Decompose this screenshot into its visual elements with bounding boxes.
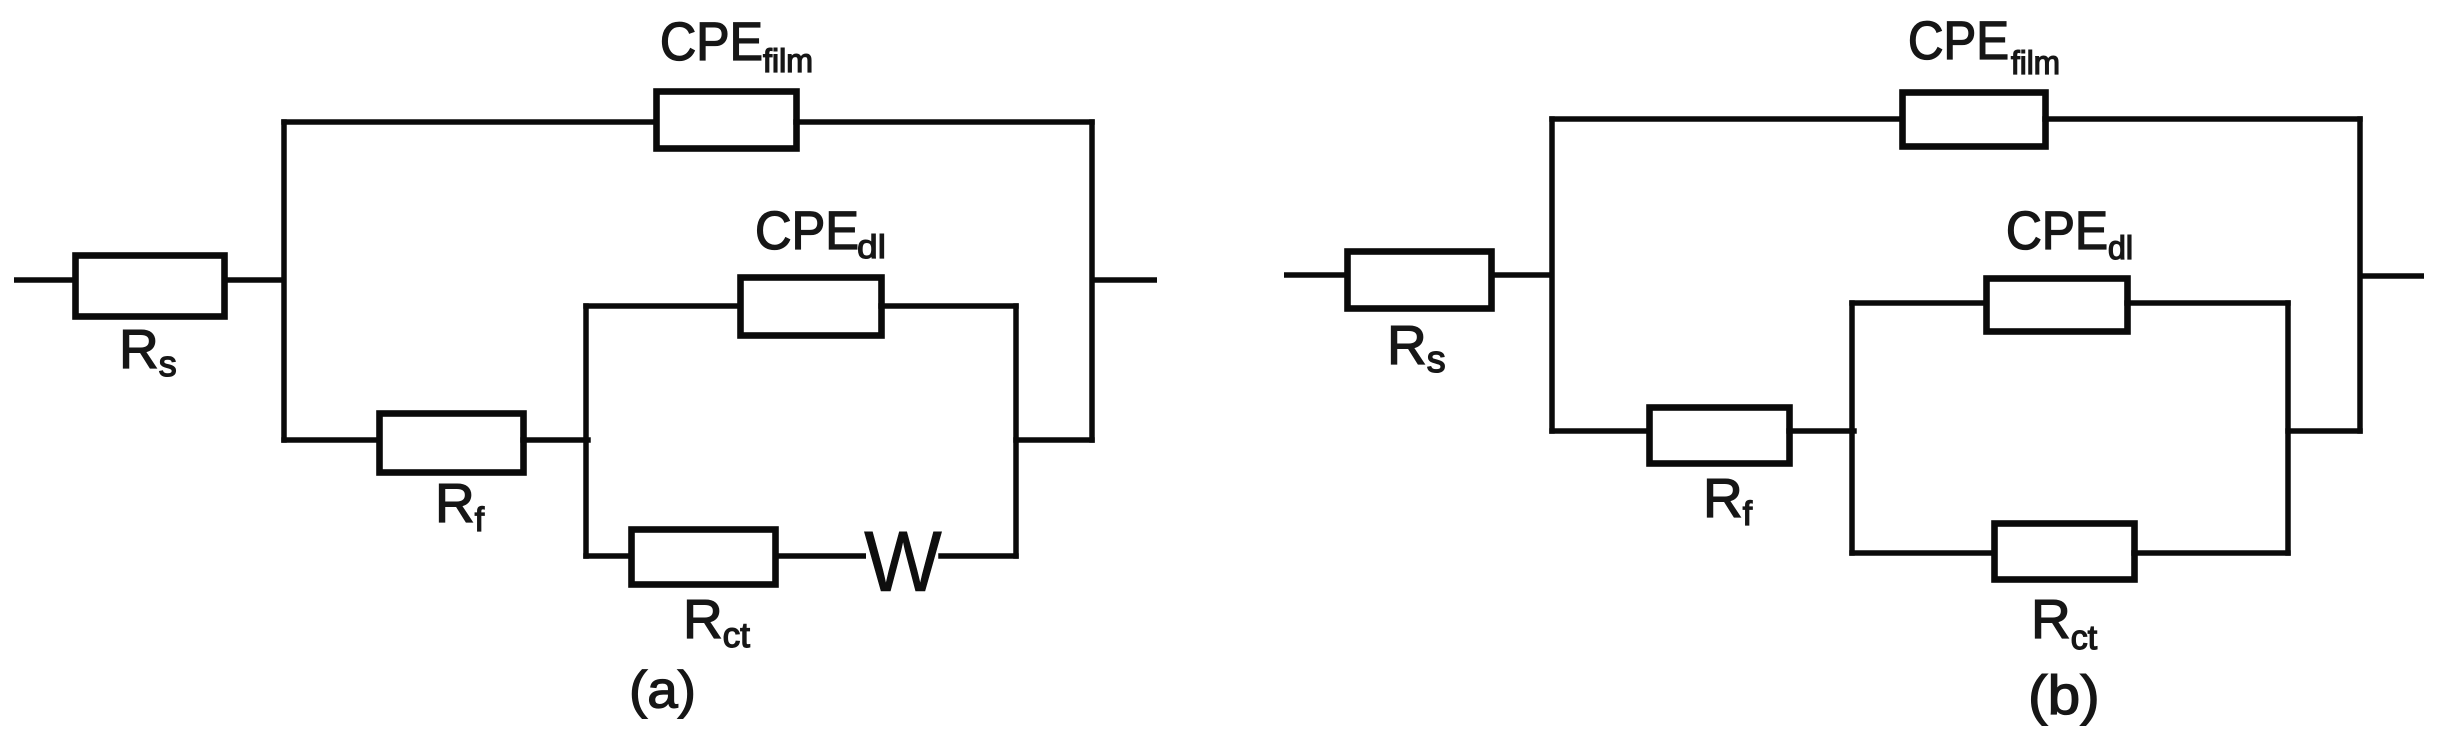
wire: outer right vertical (b)	[2357, 119, 2363, 431]
wire: top branch left segment (b)	[1552, 116, 1902, 122]
label CPEdl (a)	[758, 211, 884, 258]
wire: connector inner loop to outer vertical (b)	[2288, 428, 2360, 434]
resistor Rf (b)	[1650, 408, 1790, 464]
CPE element CPEfilm (a)	[657, 92, 797, 149]
resistor Rs (a)	[76, 256, 225, 317]
Warburg element W (a)	[864, 532, 941, 591]
resistor Rct (a)	[632, 530, 776, 585]
label (b)	[2032, 674, 2097, 725]
wire: output stub right (a)	[1092, 277, 1157, 283]
resistor Rf (a)	[380, 414, 524, 473]
wire: top branch left segment (a)	[284, 119, 656, 125]
wire: bottom branch, junction to Rf (a)	[284, 437, 379, 443]
CPE element CPEdl (a)	[741, 278, 882, 336]
wire: inner loop left vertical (a)	[583, 306, 589, 556]
wire: Rct to Warburg (a)	[775, 553, 866, 559]
wire: output stub right (b)	[2360, 273, 2424, 279]
wire: Rf to inner loop (b)	[1789, 428, 1854, 434]
label (a)	[632, 670, 692, 719]
CPE element CPEdl (b)	[1987, 279, 2128, 332]
label Rct (b)	[2036, 600, 2097, 649]
label Rct (a)	[688, 600, 750, 647]
wire: Rct to inner right vertical (b)	[2134, 550, 2288, 556]
wire: outer right vertical (a)	[1089, 122, 1095, 440]
CPE element CPEfilm (b)	[1903, 93, 2046, 147]
wire: inner loop bottom, to Rct (a)	[586, 553, 631, 559]
wire: inner loop top left segment (a)	[586, 303, 740, 309]
label CPEdl (b)	[2009, 211, 2131, 259]
wire: inner loop right vertical (a)	[1013, 306, 1019, 556]
wire: bottom branch, junction to Rf (b)	[1552, 428, 1649, 434]
wire: inner loop top right segment (b)	[2127, 300, 2288, 306]
wire: top branch right segment (b)	[2045, 116, 2360, 122]
wire: Rf to inner loop (a)	[523, 437, 588, 443]
wire: inner loop bottom, to Rct (b)	[1852, 550, 1994, 556]
label CPEfilm (a)	[663, 22, 811, 72]
wire: input stub left (a)	[14, 277, 78, 283]
resistor Rs (b)	[1348, 252, 1492, 309]
wire: Rs to left junction (a)	[224, 277, 286, 283]
wire: left junction vertical (a)	[281, 122, 287, 440]
wire: inner loop right vertical (b)	[2285, 303, 2291, 553]
wire: Rs to left junction (b)	[1491, 272, 1554, 278]
wire: inner loop left vertical (b)	[1849, 303, 1855, 553]
label Rs (b)	[1392, 326, 1445, 372]
wire: top branch right segment (a)	[796, 119, 1092, 125]
wire: connector inner loop to outer vertical (a)	[1016, 437, 1092, 443]
label Rf (b)	[1708, 479, 1753, 525]
label Rs (a)	[124, 330, 176, 376]
label Rf (a)	[440, 484, 485, 531]
resistor Rct (b)	[1995, 524, 2135, 580]
label CPEfilm (b)	[1911, 21, 2058, 74]
wire: left junction vertical (b)	[1549, 119, 1555, 431]
wire: inner loop top right segment (a)	[881, 303, 1016, 309]
wire: Warburg to inner right vertical (a)	[941, 553, 1016, 559]
wire: inner loop top left segment (b)	[1852, 300, 1986, 306]
wire: input stub left (b)	[1284, 272, 1350, 278]
